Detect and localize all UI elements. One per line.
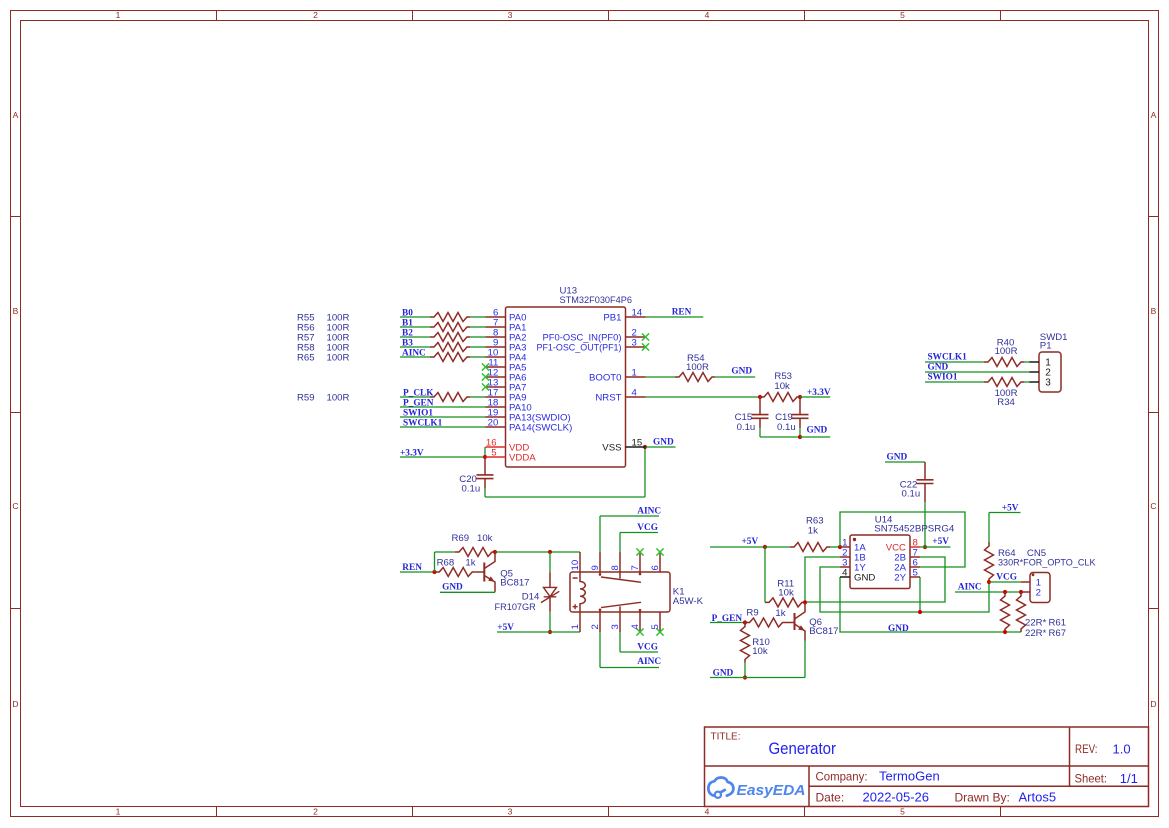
svg-text:P1: P1 (1040, 341, 1052, 352)
svg-text:100R: 100R (995, 346, 1018, 357)
svg-text:6: 6 (650, 565, 661, 570)
svg-text:22R*: 22R* (1025, 628, 1047, 639)
svg-text:STM32F030F4P6: STM32F030F4P6 (560, 295, 633, 306)
svg-text:CN5: CN5 (1027, 548, 1046, 559)
svg-text:+3.3V: +3.3V (807, 388, 831, 398)
svg-text:SWCLK1: SWCLK1 (928, 353, 968, 363)
svg-text:FR107GR: FR107GR (495, 602, 536, 613)
svg-text:D14: D14 (522, 592, 540, 603)
svg-text:1k: 1k (808, 525, 818, 536)
svg-text:TITLE:: TITLE: (711, 731, 741, 742)
svg-text:AINC: AINC (958, 583, 982, 593)
svg-text:22R*: 22R* (1025, 617, 1047, 628)
svg-text:SWIO1: SWIO1 (403, 408, 433, 418)
svg-text:VCG: VCG (637, 523, 658, 533)
svg-text:Sheet:: Sheet: (1075, 772, 1108, 786)
svg-text:REV:: REV: (1075, 742, 1098, 756)
svg-text:C: C (1150, 501, 1156, 511)
svg-text:R67: R67 (1049, 628, 1067, 639)
svg-text:P_CLK: P_CLK (403, 388, 434, 398)
svg-text:PA14(SWCLK): PA14(SWCLK) (509, 423, 572, 434)
svg-text:BOOT0: BOOT0 (589, 373, 622, 384)
svg-text:2022-05-26: 2022-05-26 (863, 789, 930, 804)
svg-text:3: 3 (508, 807, 513, 817)
svg-text:10k: 10k (774, 381, 790, 392)
svg-text:2: 2 (1036, 588, 1041, 599)
svg-text:100R: 100R (327, 393, 350, 404)
svg-text:7: 7 (630, 565, 641, 570)
svg-text:2: 2 (313, 807, 318, 817)
svg-text:5: 5 (900, 10, 905, 20)
svg-text:10k: 10k (477, 533, 493, 544)
svg-text:GND: GND (442, 583, 463, 593)
svg-text:Drawn By:: Drawn By: (955, 790, 1010, 804)
svg-text:330R*FOR_OPTO_CLK: 330R*FOR_OPTO_CLK (998, 557, 1096, 568)
svg-text:NRST: NRST (595, 393, 621, 404)
svg-text:B3: B3 (402, 338, 413, 348)
svg-text:1/1: 1/1 (1120, 771, 1138, 786)
svg-text:+5V: +5V (497, 623, 514, 633)
svg-text:BC817: BC817 (500, 577, 529, 588)
svg-text:GND: GND (807, 425, 828, 435)
svg-text:4: 4 (630, 624, 641, 630)
svg-text:Generator: Generator (769, 740, 837, 758)
svg-text:4: 4 (705, 10, 710, 20)
svg-text:100R: 100R (327, 353, 350, 364)
svg-text:14: 14 (632, 307, 643, 318)
svg-text:GND: GND (928, 362, 949, 372)
svg-text:R59: R59 (297, 393, 315, 404)
svg-text:B1: B1 (402, 318, 413, 328)
svg-text:GND: GND (854, 573, 875, 584)
svg-text:5: 5 (650, 624, 661, 629)
svg-text:REN: REN (672, 308, 692, 318)
svg-text:20: 20 (488, 417, 499, 428)
svg-text:A: A (1151, 110, 1157, 120)
svg-text:5: 5 (491, 447, 496, 458)
svg-text:3: 3 (1045, 378, 1051, 389)
svg-text:0.1u: 0.1u (462, 483, 481, 494)
svg-text:VCG: VCG (996, 573, 1017, 583)
svg-text:BC817: BC817 (809, 626, 838, 637)
svg-text:1: 1 (116, 10, 121, 20)
svg-text:SWCLK1: SWCLK1 (403, 418, 443, 428)
svg-text:A5W-K: A5W-K (673, 596, 704, 607)
svg-text:10: 10 (570, 560, 581, 571)
svg-text:VDDA: VDDA (509, 453, 536, 464)
svg-text:GND: GND (713, 668, 734, 678)
svg-text:4: 4 (632, 387, 638, 398)
svg-text:0.1u: 0.1u (777, 422, 796, 433)
svg-text:2: 2 (313, 10, 318, 20)
svg-text:VCG: VCG (637, 643, 658, 653)
svg-text:Date:: Date: (816, 790, 845, 804)
svg-text:1: 1 (116, 807, 121, 817)
svg-text:Artos5: Artos5 (1019, 789, 1057, 804)
svg-text:B: B (1151, 306, 1157, 316)
svg-text:0.1u: 0.1u (737, 422, 756, 433)
svg-text:AINC: AINC (637, 507, 661, 517)
svg-text:R9: R9 (746, 607, 758, 618)
svg-text:B2: B2 (402, 328, 413, 338)
svg-text:4: 4 (842, 568, 848, 579)
svg-text:2Y: 2Y (894, 573, 906, 584)
svg-text:P_GEN: P_GEN (403, 398, 434, 408)
svg-text:TermoGen: TermoGen (879, 769, 940, 784)
svg-text:B0: B0 (402, 308, 413, 318)
svg-text:100R: 100R (686, 362, 709, 373)
svg-text:EasyEDA: EasyEDA (737, 783, 806, 799)
svg-text:5: 5 (913, 568, 918, 579)
svg-text:R61: R61 (1049, 617, 1067, 628)
svg-text:10k: 10k (752, 646, 768, 657)
svg-text:9: 9 (590, 565, 601, 570)
svg-text:SN75452BPSRG4: SN75452BPSRG4 (874, 523, 955, 534)
svg-text:2: 2 (590, 624, 601, 629)
svg-text:GND: GND (731, 366, 752, 376)
svg-text:3: 3 (610, 624, 621, 629)
svg-text:GND: GND (887, 452, 908, 462)
svg-text:R34: R34 (997, 397, 1015, 408)
svg-text:B: B (13, 306, 19, 316)
svg-text:PB1: PB1 (603, 313, 621, 324)
svg-text:VSS: VSS (602, 443, 621, 454)
svg-text:AINC: AINC (402, 348, 426, 358)
svg-text:1k: 1k (775, 608, 785, 619)
svg-text:GND: GND (888, 624, 909, 634)
svg-text:+5V: +5V (742, 537, 759, 547)
svg-text:3: 3 (508, 10, 513, 20)
svg-text:R68: R68 (437, 558, 455, 569)
svg-text:4: 4 (705, 807, 710, 817)
svg-text:AINC: AINC (637, 657, 661, 667)
svg-text:10k: 10k (778, 587, 794, 598)
svg-text:8: 8 (610, 565, 621, 570)
svg-text:3: 3 (632, 337, 637, 348)
svg-text:Company:: Company: (816, 770, 868, 784)
svg-text:R65: R65 (297, 353, 315, 364)
svg-text:R69: R69 (452, 533, 470, 544)
svg-text:5: 5 (900, 807, 905, 817)
svg-text:PF1-OSC_OUT(PF1): PF1-OSC_OUT(PF1) (537, 343, 622, 354)
svg-text:D: D (1150, 699, 1156, 709)
svg-text:1.0: 1.0 (1113, 742, 1131, 757)
svg-text:+5V: +5V (932, 537, 949, 547)
svg-text:15: 15 (632, 437, 643, 448)
svg-text:GND: GND (653, 438, 674, 448)
svg-text:D: D (12, 699, 18, 709)
svg-text:1: 1 (632, 367, 637, 378)
svg-text:1: 1 (570, 624, 581, 629)
svg-text:0.1u: 0.1u (902, 489, 921, 500)
svg-text:C: C (12, 501, 18, 511)
svg-text:1k: 1k (465, 558, 475, 569)
svg-text:SWIO1: SWIO1 (928, 372, 958, 382)
svg-text:A: A (13, 110, 19, 120)
